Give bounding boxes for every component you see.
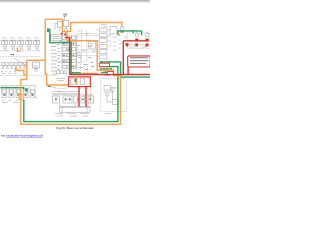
svg-text:Fig 31: Boom up schematic: Fig 31: Boom up schematic xyxy=(56,126,94,130)
svg-text:ats excavator-hyd-diagram.pdf: ats excavator-hyd-diagram.pdf xyxy=(1,134,43,138)
